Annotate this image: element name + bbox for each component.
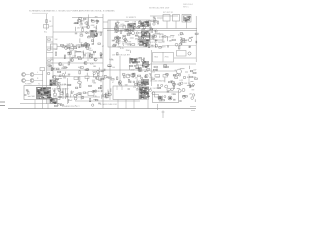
resistor R145: [98, 87, 101, 88]
wire segment W16: [68, 47, 71, 49]
svg-text:680: 680: [93, 66, 96, 68]
resistor R82: [100, 55, 101, 58]
resistor R73: [48, 65, 51, 66]
wire segment W65: [93, 52, 95, 55]
svg-text:POWER: POWER: [25, 84, 32, 86]
wire: mid-left wire y76: [58, 76, 100, 78]
transistor Q51: [95, 90, 97, 92]
capacitor C35: [98, 102, 100, 105]
wire: C3 link: [57, 46, 72, 48]
resistor R75: [157, 21, 158, 24]
dense knot Q2 area: [90, 30, 98, 37]
dark knot mid-left: [50, 80, 57, 86]
svg-text:390: 390: [135, 39, 138, 41]
resistor R20: [172, 39, 175, 41]
wire: left input vertical: [52, 16, 54, 84]
resistor R71: [93, 51, 95, 52]
resistor R51: [142, 42, 143, 45]
wire: relay link: [157, 17, 163, 19]
svg-text:120: 120: [127, 45, 130, 47]
resistor R107: [134, 84, 137, 85]
resistor R65: [78, 82, 81, 83]
resistor R66: [68, 84, 71, 85]
svg-text:S1a: S1a: [44, 32, 47, 34]
wire segment W71: [98, 70, 102, 72]
resistor R8: [79, 18, 82, 19]
wire: bottom right dash 2: [191, 110, 195, 112]
wire: T1 bottom lead 1: [34, 100, 36, 109]
wire: jack row lead right 2: [34, 80, 43, 82]
svg-text:47: 47: [53, 97, 55, 99]
resistor R23: [89, 53, 91, 56]
resistor R70: [98, 73, 99, 76]
transistor Q38: [131, 59, 134, 62]
transistor Q9: [116, 36, 119, 39]
wire segment W112: [93, 98, 97, 100]
resistor R26: [128, 31, 131, 32]
wire segment W91: [143, 79, 145, 83]
resistor R60: [167, 89, 170, 91]
svg-text:220: 220: [114, 32, 117, 34]
resistor R75: [90, 55, 91, 58]
relay RY1 box: [163, 15, 170, 22]
transformer T1 winding dark: [36, 87, 52, 99]
transistor Q2: [92, 34, 95, 37]
transistor Q6: [58, 62, 61, 65]
svg-text:.047: .047: [49, 26, 53, 28]
wire segment W25: [138, 43, 143, 45]
capacitor C3: [80, 20, 83, 22]
resistor R81: [99, 79, 101, 80]
transistor Q33: [120, 84, 122, 86]
resistor R79: [56, 78, 59, 79]
resistor R27 box: [85, 76, 89, 79]
resistor R68: [49, 65, 52, 66]
transistor Q28: [97, 71, 100, 74]
wire segment W7: [81, 44, 83, 47]
resistor R6: [80, 35, 83, 36]
transistor Q10: [95, 76, 98, 79]
diode bridge D1 box: [154, 34, 163, 40]
transistor Q55: [193, 94, 195, 96]
resistor R2: [77, 20, 79, 23]
wire: Q1 collector rail: [88, 15, 90, 27]
resistor R129: [166, 74, 169, 75]
svg-text:680: 680: [159, 101, 162, 103]
wire: right edge stub: [188, 74, 190, 86]
svg-text:47: 47: [102, 46, 104, 48]
capacitor C33: [26, 88, 28, 91]
wire segment W1: [75, 27, 77, 31]
resistor R148: [83, 92, 86, 93]
transistor Q21: [152, 35, 154, 37]
capacitor C12: [68, 73, 70, 76]
wire segment W93: [137, 64, 139, 69]
capacitor C12: [139, 20, 142, 22]
resistor R24: [63, 67, 66, 69]
wire segment W114: [101, 95, 103, 99]
resistor R58: [181, 40, 183, 41]
resistor R100: [128, 79, 129, 82]
resistor R22: [64, 55, 66, 58]
resistor R24: [126, 30, 128, 31]
svg-text:47: 47: [80, 43, 82, 45]
resistor R74: [80, 84, 81, 87]
wire segment W17: [66, 45, 71, 47]
wire: mid band wire C: [47, 69, 151, 71]
wire segment W106: [59, 84, 61, 85]
wire segment W55: [170, 34, 174, 36]
capacitor C19: [167, 45, 170, 47]
capacitor C38: [128, 87, 130, 90]
wire: mid horizontal bus: [53, 31, 103, 33]
transistor Q5: [131, 31, 134, 34]
transistor Q5: [133, 27, 136, 30]
resistor R116: [138, 83, 139, 86]
capacitor C15: [151, 31, 154, 33]
transistor Q4: [125, 40, 128, 43]
capacitor C1: [44, 25, 49, 29]
wire segment W28: [127, 32, 132, 34]
transistor Q22: [155, 44, 158, 47]
resistor R41: [144, 35, 147, 36]
transistor Q20: [164, 35, 166, 37]
wire segment W110: [67, 99, 69, 103]
resistor R32: [113, 45, 116, 46]
wire: mid-left vert2: [87, 52, 89, 61]
transistor Q57: [164, 96, 166, 98]
resistor R111: [147, 69, 150, 70]
resistor R161: [190, 85, 193, 86]
wire segment W62: [159, 36, 161, 39]
wire segment W79: [92, 79, 95, 81]
resistor R56: [182, 41, 185, 42]
capacitor C4: [91, 19, 93, 22]
svg-text:120: 120: [63, 77, 66, 79]
wire: lower mid horizontal: [75, 100, 140, 102]
power lamp LP1: [177, 69, 182, 74]
svg-text:.047: .047: [117, 43, 121, 45]
transformer T1 box: [24, 86, 60, 100]
resistor R124: [177, 74, 179, 75]
svg-text:2SC1400 2SA700: 2SC1400 2SA700: [150, 80, 164, 83]
resistor R149: [82, 96, 83, 99]
resistor R52: [147, 36, 150, 37]
wire segment W103: [191, 80, 194, 82]
capacitor C37: [61, 91, 64, 93]
resistor R16: [60, 45, 63, 46]
capacitor C16: [188, 52, 191, 55]
resistor R152: [108, 94, 111, 95]
wire segment W99: [180, 68, 185, 70]
resistor R135: [173, 83, 174, 86]
wire segment W60: [180, 37, 182, 39]
terminal post P2: [168, 96, 172, 100]
transistor Q49: [92, 91, 94, 93]
wire: fuse stub down: [186, 22, 188, 29]
resistor R160: [173, 86, 174, 89]
resistor R38: [148, 33, 149, 36]
resistor R22: [114, 28, 117, 29]
resistor R80: [56, 68, 59, 69]
fuse F1 inner detail: [183, 16, 191, 22]
capacitor C11: [180, 43, 183, 45]
wire segment W42: [125, 25, 127, 28]
resistor R12: [74, 47, 77, 48]
resistor R6: [62, 46, 65, 48]
wire segment W78: [92, 74, 94, 77]
svg-text:7815: 7815: [154, 57, 158, 59]
wire segment W83: [71, 56, 74, 58]
capacitor C7: [138, 25, 140, 28]
resistor R43: [139, 36, 142, 37]
terminal post P1 center: [159, 97, 161, 99]
wire: connector pin A: [62, 88, 64, 99]
capacitor C3: [51, 44, 58, 49]
transistor Q13: [123, 37, 126, 40]
resistor R90: [101, 85, 102, 88]
wire: mid-left link1: [53, 75, 70, 77]
resistor R120: [151, 78, 154, 79]
svg-text:0.22: 0.22: [179, 80, 183, 82]
resistor R86: [51, 68, 54, 69]
wire segment W87: [136, 81, 138, 83]
resistor R113: [134, 58, 137, 59]
capacitor C34: [53, 89, 55, 92]
resistor R122: [153, 69, 156, 70]
resistor R46: [148, 33, 149, 36]
wire segment W122: [161, 96, 163, 100]
resistor R143: [95, 99, 98, 100]
wire segment W39: [133, 26, 135, 29]
capacitor C39: [179, 100, 181, 103]
resistor R88: [79, 77, 80, 80]
resistor R20: [84, 45, 86, 46]
resistor R133: [190, 70, 193, 71]
capacitor C22: [52, 76, 55, 78]
transistor Q8: [84, 61, 87, 64]
wire segment W6: [89, 30, 93, 32]
dense knot driver pair: [141, 79, 149, 86]
svg-text:220: 220: [133, 87, 136, 89]
capacitor C5: [123, 24, 125, 27]
wire: bottom arrow stem: [162, 111, 164, 119]
wire segment W54: [167, 37, 169, 42]
wire: ladder rung 1: [47, 36, 54, 38]
resistor R37: [125, 29, 128, 30]
wire segment W67: [92, 70, 97, 72]
svg-text:120: 120: [142, 67, 145, 69]
wire segment W5: [80, 20, 84, 22]
resistor R50: [60, 93, 63, 95]
resistor R3: [87, 46, 89, 47]
wire segment W43: [149, 23, 152, 25]
resistor R32: [143, 58, 145, 61]
transistor Q7: [70, 58, 73, 61]
resistor R1: [46, 20, 48, 23]
svg-text:15V 15V 10K C21 R77: 15V 15V 10K C21 R77: [112, 55, 130, 57]
transistor Q61: [161, 84, 163, 86]
resistor R76: [68, 62, 69, 65]
wire segment W127: [177, 88, 180, 90]
svg-text:470: 470: [80, 33, 83, 35]
speaker jack J3: [22, 79, 26, 83]
capacitor C13: [143, 45, 145, 48]
resistor R19: [67, 47, 70, 48]
wire segment W41: [128, 41, 131, 43]
svg-text:120: 120: [77, 28, 80, 30]
fuse F1 box: [182, 15, 191, 23]
wire segment W37: [117, 41, 119, 46]
wire segment W8: [82, 27, 84, 29]
capacitor C21: [151, 44, 153, 47]
wire segment W56: [180, 41, 184, 43]
resistor R69: [78, 56, 81, 57]
wire: lamp wire: [150, 70, 177, 72]
wire: U1 to bus: [103, 21, 108, 23]
wire: J5 pin line 2: [121, 86, 123, 90]
wire: J5 stub down: [147, 100, 149, 109]
resistor R67: [58, 71, 61, 72]
wire segment W96: [164, 77, 166, 82]
wire segment W85: [136, 79, 138, 84]
resistor R48: [142, 38, 143, 40]
resistor R151: [106, 95, 107, 98]
terminal post P1: [158, 96, 162, 100]
resistor R42 box: [155, 75, 160, 78]
transistor Q50: [92, 104, 94, 106]
wire segment W94: [143, 82, 148, 84]
resistor R134: [195, 78, 198, 79]
resistor R92: [70, 51, 71, 54]
wire segment W105: [54, 90, 56, 94]
resistor R54: [154, 21, 157, 22]
resistor R101: [117, 77, 118, 80]
resistor R106: [136, 67, 139, 68]
transistor Q62: [178, 90, 181, 93]
resistor R104: [124, 75, 125, 78]
resistor R39: [123, 35, 126, 36]
wire segment W3: [75, 23, 77, 25]
terminal post P2 center: [169, 97, 171, 99]
resistor R119: [108, 65, 111, 66]
resistor R53: [151, 20, 154, 21]
transistor Q8: [124, 38, 127, 41]
svg-text:.047: .047: [193, 69, 197, 71]
svg-text:390: 390: [51, 59, 54, 61]
wire segment W100: [188, 66, 190, 69]
wire segment W102: [150, 74, 152, 77]
transistor Q45: [74, 97, 77, 100]
wire segment W84: [67, 52, 71, 54]
wire: T1 vertical: [42, 71, 44, 109]
resistor R61: [180, 33, 183, 34]
resistor R2: [88, 37, 91, 38]
wire segment W88: [135, 68, 139, 70]
resistor R29: [137, 27, 140, 28]
wire segment W126: [180, 90, 182, 92]
wire segment W23: [118, 22, 120, 24]
resistor R126: [190, 85, 191, 88]
wire segment W45: [148, 37, 150, 42]
transistor Q14: [143, 37, 145, 39]
wire segment W30: [130, 37, 134, 39]
wire segment W33: [130, 50, 132, 53]
wire segment W35: [117, 27, 119, 32]
wire segment W72: [86, 78, 88, 82]
wire segment W92: [144, 70, 146, 72]
wire segment W4: [94, 26, 97, 28]
transistor Q48: [74, 94, 77, 97]
wire: right block left vertical: [150, 50, 152, 86]
wire: J5 pin line 1: [116, 86, 118, 90]
wire: J5 lead down 2: [125, 100, 127, 109]
dense knot U1 right: [140, 21, 150, 27]
capacitor C2: [80, 22, 82, 25]
capacitor C25: [107, 76, 109, 79]
transistor Q10: [114, 37, 116, 39]
transistor Q60: [165, 85, 168, 88]
transistor Q34: [133, 81, 135, 83]
capacitor C17: [189, 45, 191, 48]
svg-text:.047: .047: [184, 40, 188, 42]
resistor R156: [183, 95, 186, 96]
resistor R93: [133, 74, 134, 77]
resistor R25: [128, 29, 130, 30]
wire segment W108: [70, 94, 72, 97]
capacitor C11: [146, 33, 148, 36]
transistor Q16: [136, 32, 138, 34]
wire segment W89: [128, 67, 130, 70]
transistor Q3: [87, 43, 90, 46]
wire segment W69: [65, 72, 67, 74]
wire: Q1 base: [80, 26, 86, 28]
transistor Q13: [126, 74, 130, 78]
resistor R109: [139, 68, 142, 69]
resistor R30: [129, 58, 131, 61]
wire segment W73: [98, 68, 100, 70]
transistor Q11: [138, 39, 141, 42]
wire: mid band wire A: [50, 57, 103, 59]
speaker jack J2: [30, 73, 34, 77]
wire: jack J1 lead: [26, 74, 30, 76]
dark knot lower-left: [50, 98, 58, 104]
socket SO2: [183, 96, 186, 99]
capacitor C27: [134, 64, 136, 67]
svg-text:SCHEMATIC DIAGRAM NO 2 . MOD: SCHEMATIC DIAGRAM NO 2 . MODEL 500 POWER…: [29, 9, 116, 12]
transistor Q31: [145, 76, 147, 78]
resistor R84: [91, 54, 92, 57]
wire: ladder rung 2: [47, 41, 54, 43]
resistor R11: [120, 30, 122, 33]
wire segment W40: [129, 29, 134, 31]
wire segment W109: [75, 104, 77, 107]
wire segment W52: [149, 23, 151, 26]
capacitor C10: [126, 24, 129, 26]
wire segment W76: [63, 56, 65, 59]
resistor R159: [158, 87, 161, 88]
resistor R125: [173, 74, 176, 75]
resistor R23: [116, 23, 119, 24]
wire segment W47: [140, 29, 142, 31]
resistor R36: [127, 34, 130, 35]
transistor Q24: [53, 75, 56, 78]
transistor Q18: [175, 43, 178, 46]
wire: jack row lead right: [34, 74, 43, 76]
transistor Q14: [119, 81, 122, 84]
wire: center vertical rail: [102, 14, 104, 108]
wire segment W20: [86, 44, 88, 47]
